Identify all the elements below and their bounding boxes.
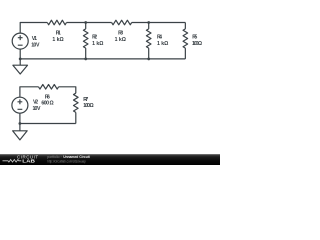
svg-text:100 Ω: 100 Ω	[83, 103, 93, 109]
svg-text:R3: R3	[118, 31, 123, 37]
svg-text:R6: R6	[45, 94, 50, 100]
svg-text:http://circuitlab.com/c6sswuap: http://circuitlab.com/c6sswuap	[47, 160, 85, 164]
svg-text:R2: R2	[92, 34, 97, 40]
svg-text:1 kΩ: 1 kΩ	[115, 37, 126, 43]
svg-text:V1: V1	[32, 36, 37, 42]
svg-text:1 kΩ: 1 kΩ	[52, 37, 63, 43]
svg-text:10 V: 10 V	[33, 106, 42, 112]
svg-text:V2: V2	[33, 100, 38, 106]
svg-text:1 kΩ: 1 kΩ	[92, 41, 103, 47]
svg-text:LAB: LAB	[22, 158, 36, 163]
svg-text:R1: R1	[56, 31, 61, 37]
svg-text:portfolio ›: portfolio ›	[47, 155, 61, 159]
svg-text:100 Ω: 100 Ω	[192, 41, 202, 47]
svg-text:600 Ω: 600 Ω	[41, 101, 53, 107]
svg-text:1 kΩ: 1 kΩ	[157, 41, 168, 47]
svg-text:R7: R7	[83, 97, 88, 103]
svg-text:10 V: 10 V	[31, 42, 40, 48]
svg-text:R5: R5	[192, 34, 197, 40]
svg-text:R4: R4	[157, 34, 162, 40]
svg-text:Unnamed Circuit: Unnamed Circuit	[63, 155, 90, 159]
